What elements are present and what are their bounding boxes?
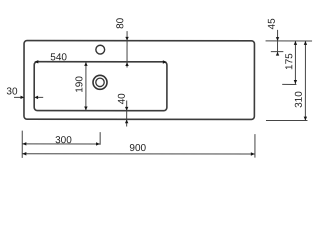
dimension 540 left arrow [34, 60, 38, 63]
dimension 40 bottom arrow (up at basin bottom) [125, 119, 128, 123]
svg-text:40: 40 [117, 93, 128, 105]
dimension 80 top arrow (down at basin top) [125, 37, 128, 41]
dimension 40 line [126, 100, 128, 126]
svg-text:45: 45 [267, 18, 278, 30]
dimension 30 right arrow (left-pointing at bowl left) [34, 96, 38, 99]
drain inner circle [96, 78, 104, 86]
dimension 45 top arrow (down at top edge level) [276, 37, 279, 41]
dimension 190 bottom arrow [84, 107, 87, 111]
dimension 30 left arrow (right-pointing at basin left) [20, 96, 24, 99]
dimension 80 bottom arrow (up at bowl top) [125, 62, 128, 66]
dimension 45 bottom arrow (up at faucet level) [276, 52, 279, 56]
dimension 45 line [277, 30, 279, 55]
dimension 900 left arrow [22, 152, 26, 155]
dimension 175 top arrow [294, 41, 297, 45]
svg-text:175: 175 [284, 53, 295, 70]
svg-text:80: 80 [115, 17, 126, 29]
faucet hole [96, 45, 105, 54]
faucet level tick [271, 51, 284, 53]
extension line top right [266, 40, 312, 42]
dimension 300 left arrow [22, 142, 26, 145]
dimension 900 line [22, 153, 255, 155]
dimension 310 top arrow [304, 41, 307, 45]
svg-text:30: 30 [6, 86, 18, 97]
dimension 300 line [22, 143, 100, 145]
dimension 30 right line [38, 96, 43, 98]
dimension 175 line [294, 41, 296, 84]
extension line bottom left [21, 131, 23, 158]
drain outer circle [93, 75, 107, 89]
svg-text:310: 310 [294, 91, 305, 108]
dimension 310 line [304, 41, 306, 121]
dimension 190 top arrow [84, 62, 87, 66]
dimension 30 left line [14, 96, 21, 98]
extension line for 300 right [99, 132, 101, 145]
dimension 80 line [126, 31, 128, 67]
dimension 900 right arrow [251, 152, 255, 155]
extension line bottom right [266, 120, 307, 122]
drain level tick [282, 83, 296, 85]
dimension 175 bottom arrow [294, 80, 297, 84]
svg-text:540: 540 [50, 52, 67, 63]
basin outline [24, 41, 254, 120]
svg-text:900: 900 [129, 143, 146, 154]
dimension 540 right arrow [163, 60, 167, 63]
dimension 300 right arrow [96, 142, 100, 145]
extension line for 900 right [254, 134, 256, 157]
svg-text:300: 300 [55, 135, 72, 146]
dimension 190 line [85, 62, 87, 111]
dimension 40 top arrow (down at bowl bottom) [125, 107, 128, 111]
svg-text:190: 190 [74, 76, 85, 93]
dimension 310 bottom arrow [304, 117, 307, 121]
bowl outline [34, 62, 167, 111]
